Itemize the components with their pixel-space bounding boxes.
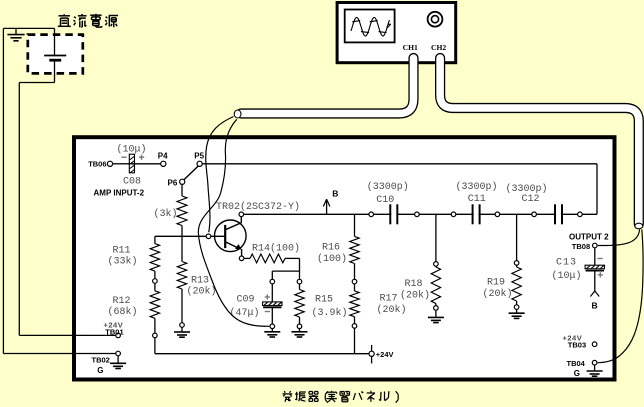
TB02 terminal: [116, 351, 121, 356]
C10 terminals: [369, 212, 374, 217]
wire R16 to terminal: [354, 264, 356, 280]
node B arrow: [590, 291, 594, 297]
resistor R17: [350, 291, 359, 317]
resistor (3k): [177, 196, 187, 226]
svg-text:B: B: [332, 189, 338, 199]
svg-text:C12: C12: [522, 194, 540, 205]
svg-text:R16: R16: [322, 243, 340, 254]
C11 terminals: [451, 212, 456, 217]
wire C08 to P4: [128, 163, 161, 165]
wire 3k to base rail: [181, 226, 183, 237]
P6 terminal: [180, 179, 185, 184]
wire C13 to node B: [594, 271, 596, 291]
svg-text:(20k): (20k): [400, 289, 430, 301]
R13 bottom terminal: [180, 323, 185, 328]
svg-text:TB04: TB04: [567, 359, 586, 368]
wire: +24V line to TB01: [19, 334, 116, 336]
wire to R12: [154, 283, 156, 291]
ground R13: [174, 331, 190, 333]
svg-text:(100): (100): [317, 253, 347, 265]
svg-text:R13: R13: [191, 275, 209, 286]
R17 bottom terminal: [352, 324, 357, 329]
wire TB04 stub: [594, 365, 596, 371]
resistor R14: [250, 254, 285, 263]
resistor R11: [150, 244, 159, 272]
wire: battery minus top rail: [3, 27, 54, 29]
ground TB04: [587, 370, 603, 372]
TB06 terminal: [107, 161, 112, 166]
+24V plug terminal: [371, 345, 373, 364]
svg-text:TB03: TB03: [568, 340, 586, 349]
svg-text:C10: C10: [376, 195, 394, 206]
node B arrow: [326, 199, 328, 214]
svg-text:TR02(2SC372-Y): TR02(2SC372-Y): [216, 201, 300, 213]
wire TB08 to C13: [594, 248, 596, 266]
caption oscillator practice panel (kanji): [283, 391, 293, 402]
practice panel board: [74, 137, 615, 379]
oscilloscope screen: [345, 10, 395, 43]
wire down to +24V bottom rail: [154, 338, 156, 354]
C09 polarity: [265, 296, 270, 298]
mid terminal R11/R12: [153, 279, 158, 284]
wire base rail to R13: [181, 236, 183, 261]
R18 column: [435, 214, 437, 261]
capacitor C08 (electrolytic, horizontal): [129, 154, 134, 173]
wire to ground: [181, 327, 183, 332]
svg-text:R12: R12: [113, 296, 131, 307]
wire P6 down to 3k resistor: [181, 184, 183, 196]
collector terminal: [239, 212, 244, 217]
TB03 terminal: [592, 342, 597, 347]
C12 terminals: [532, 212, 537, 217]
wire: top rail P5 to feedback corner: [202, 163, 597, 165]
svg-text:(3.9k): (3.9k): [312, 307, 348, 319]
wire +24V bottom rail: [155, 353, 372, 355]
svg-text:R18: R18: [405, 279, 423, 290]
svg-text:TB06: TB06: [88, 160, 106, 169]
C09 bottom terminal: [270, 324, 275, 329]
ground R15: [292, 331, 308, 333]
resistor R16: [350, 236, 359, 263]
svg-text:(3k): (3k): [154, 208, 178, 220]
branch wire: [272, 270, 299, 272]
svg-text:P4: P4: [158, 151, 168, 160]
svg-text:C08: C08: [123, 176, 141, 187]
capacitor C12: [554, 204, 556, 224]
svg-text:C13: C13: [556, 258, 577, 269]
svg-text:C09: C09: [237, 295, 255, 306]
wire rail to R16: [354, 214, 356, 236]
TB01 terminal: [116, 333, 121, 338]
svg-text:(3300p): (3300p): [456, 181, 498, 193]
label DC power supply (kanji): [58, 14, 71, 26]
capacitor C09 (electrolytic): [263, 302, 282, 306]
svg-text:TB08: TB08: [572, 242, 590, 251]
resistor R12: [150, 291, 159, 319]
svg-text:(20k): (20k): [483, 288, 513, 300]
oscilloscope waveform: [351, 17, 391, 36]
wire C09 to bottom terminal: [271, 308, 273, 325]
wire into battery: [54, 28, 56, 55]
wire to ground: [299, 329, 301, 332]
svg-text:CH2: CH2: [431, 43, 446, 52]
CH1 probe signal lead to base: [206, 117, 234, 233]
svg-text:CH1: CH1: [403, 43, 418, 52]
wire R13 to terminal: [181, 289, 183, 323]
svg-text:G: G: [97, 366, 103, 375]
R15 bottom terminal: [297, 324, 302, 329]
R16/R17 terminal: [352, 279, 357, 284]
svg-text:(3300p): (3300p): [367, 181, 409, 193]
svg-text:(68k): (68k): [108, 306, 138, 318]
C13 polarity: [597, 258, 602, 260]
ground TB02: [110, 362, 126, 364]
ground C09: [264, 331, 280, 333]
CH1 probe ground lead to C09: [198, 119, 269, 326]
C08 polarity signs: [121, 156, 126, 158]
P5 terminal: [197, 161, 202, 166]
capacitor C11: [472, 204, 474, 224]
wire to C09: [271, 284, 273, 302]
svg-text:G: G: [574, 369, 580, 378]
P4 terminal: [161, 161, 166, 166]
TB04 terminal: [592, 360, 597, 365]
wire R14 to corner: [285, 257, 300, 259]
CH2 probe ground lead to TB04: [598, 230, 644, 363]
TB02 ground stub: [117, 356, 119, 363]
wire to R15: [299, 284, 301, 290]
wire R12 to bottom terminal: [154, 318, 156, 333]
wire to R11: [154, 236, 156, 243]
svg-text:R14(100): R14(100): [252, 243, 300, 255]
CH2 probe cable: [440, 58, 639, 224]
resistor R15: [295, 290, 304, 318]
oscilloscope knob: [428, 12, 443, 27]
oscilloscope body: [337, 3, 456, 63]
wire R15 to bottom terminal: [299, 317, 301, 324]
emitter terminal: [239, 256, 244, 261]
svg-text:(10μ): (10μ): [552, 270, 582, 282]
svg-text:P6: P6: [168, 178, 178, 187]
wire to ground: [271, 329, 273, 332]
CH1 cable end connector: [234, 110, 241, 118]
CH1 probe cable: [241, 58, 414, 114]
wire: battery plus: [54, 60, 56, 82]
CH2 cable end connector: [635, 223, 643, 229]
TB08 terminal: [593, 243, 598, 248]
svg-text:TB01: TB01: [105, 327, 123, 336]
svg-text:(20k): (20k): [377, 304, 407, 316]
wire collector rail: [244, 213, 597, 215]
ground at DC supply: [15, 28, 17, 34]
svg-text:R11: R11: [113, 246, 131, 257]
svg-text:R19: R19: [487, 278, 505, 289]
wire emitter to R14: [244, 257, 250, 259]
wire to R17: [354, 284, 356, 291]
wire: feedback drop: [596, 164, 598, 215]
svg-text:B: B: [592, 301, 598, 311]
capacitor C13 (electrolytic): [585, 265, 604, 269]
svg-text:R17: R17: [380, 294, 398, 305]
CH2 probe signal lead to TB08: [598, 230, 640, 246]
wire: G line to TB02: [3, 353, 116, 355]
svg-text:R15: R15: [315, 295, 333, 306]
base junction terminal: [206, 234, 211, 239]
dashed box border: [28, 35, 83, 74]
svg-text:TB02: TB02: [92, 355, 110, 364]
R19 column: [516, 214, 518, 260]
transistor TR02 (2SC372-Y): [215, 217, 247, 257]
svg-text:P5: P5: [194, 151, 204, 160]
svg-text:(20k): (20k): [187, 286, 217, 298]
svg-text:C11: C11: [468, 194, 486, 205]
resistor R13: [177, 262, 186, 290]
svg-text:OUTPUT 2: OUTPUT 2: [569, 233, 609, 242]
svg-text:+24V: +24V: [376, 350, 394, 359]
svg-text:AMP INPUT-2: AMP INPUT-2: [94, 189, 145, 198]
wire R17 to bottom terminal: [354, 317, 356, 324]
switch lever P6-P5: [184, 166, 198, 179]
wire R11 to mid terminal: [154, 271, 156, 279]
R15 top terminal: [297, 279, 302, 284]
battery cell: [44, 55, 66, 57]
wire TB06 to C08: [112, 163, 128, 165]
DC supply dashed enclosure: [28, 35, 83, 74]
C09 top terminal: [270, 279, 275, 284]
R12 bottom terminal: [153, 333, 158, 338]
svg-text:(33k): (33k): [108, 256, 138, 268]
capacitor C10: [389, 204, 391, 224]
wire to +24V rail: [354, 328, 356, 353]
svg-text:(10μ): (10μ): [116, 143, 146, 155]
wire base: [155, 235, 225, 237]
